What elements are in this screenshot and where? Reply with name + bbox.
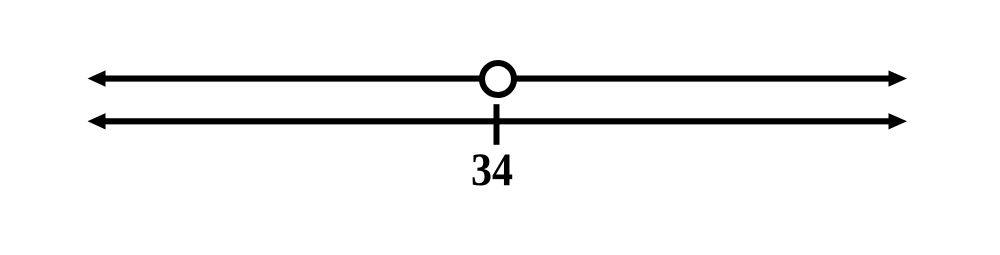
bottom line left arrowhead bbox=[88, 113, 106, 129]
top line left arrowhead bbox=[88, 70, 106, 86]
tick mark at 34 on bottom line bbox=[494, 104, 500, 145]
top number line shaft bbox=[100, 75, 894, 81]
top line right arrowhead bbox=[889, 70, 908, 86]
svg-text:34: 34 bbox=[471, 145, 513, 196]
open circle at 34 on top line bbox=[482, 63, 514, 95]
bottom number line shaft bbox=[100, 118, 894, 124]
bottom line right arrowhead bbox=[889, 113, 908, 129]
